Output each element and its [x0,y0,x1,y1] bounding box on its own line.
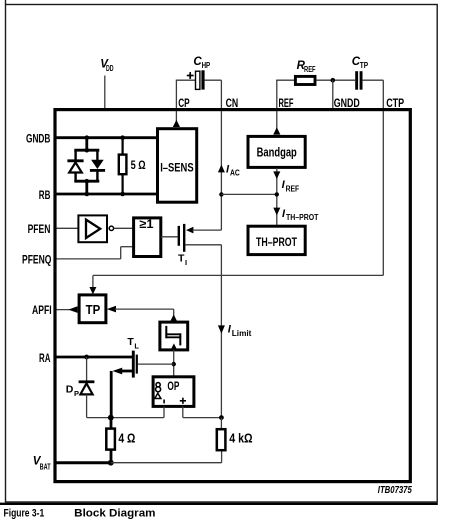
block Bandgap [248,136,305,167]
junction ILimit plus node [219,415,224,420]
svg-text:4 kΩ: 4 kΩ [229,431,252,446]
capacitor CTP [352,56,369,90]
block TP [79,295,106,323]
wire OP plus input [183,406,222,417]
pin label REF [279,96,294,110]
wire TP input from Schmitt [107,306,174,317]
pin label CTP [386,96,404,110]
svg-text:TP: TP [86,303,101,317]
IC boundary box [55,110,410,482]
svg-text:TH–PROT: TH–PROT [286,213,318,222]
junction GNDB diode branch [85,135,90,140]
svg-text:REF: REF [279,96,294,110]
label ITB07375 [378,485,412,496]
svg-text:RA: RA [39,351,50,365]
svg-text:P: P [74,389,79,398]
arrow IREF [273,171,299,193]
wire RB [57,193,157,196]
arrow IAC [218,163,240,177]
pin label APFI [32,303,52,317]
wire GNDB [57,136,157,139]
wire CTP internal to TP [89,111,383,294]
diode DP [66,357,95,418]
pin label GNDD [334,96,360,110]
wire Bandgap to TH-PROT [276,168,278,226]
arrow Schmitt input [170,343,177,350]
block I-SENS [158,129,197,203]
junction RB 5ohm branch [120,192,125,197]
svg-text:Figure 3-1: Figure 3-1 [4,508,45,520]
wire REF external [276,80,294,108]
svg-text:Limit: Limit [232,329,252,338]
svg-text:AC: AC [230,169,240,178]
svg-text:PFENQ: PFENQ [22,252,52,266]
arrow ILimit [218,323,252,337]
junction VBAT node [108,460,114,466]
arrow GNDB into I-SENS [157,134,164,141]
svg-text:TP: TP [360,61,369,70]
svg-text:≥1: ≥1 [139,217,153,231]
pin label GNDB [26,132,50,146]
wire VBAT to 4k ohm [111,451,222,463]
svg-text:BAT: BAT [40,462,51,471]
wire OP minus output [87,406,164,417]
junction GNDB 5ohm branch [120,135,125,140]
transistor TI [178,224,221,267]
Schmitt trigger block [160,322,188,350]
arrow RB into I-SENS [157,190,164,197]
pin label RB [39,188,51,202]
junction TL source node [108,415,114,421]
op-amp OP block [153,377,194,407]
pin label CN [226,96,239,110]
svg-text:APFI: APFI [32,303,52,317]
wire OR gate to TI gate [161,236,179,238]
ESD clamp diode pair [67,138,105,194]
block TH-PROT [248,226,305,254]
wire VBAT [57,461,111,464]
resistor 4k ohm [217,418,253,451]
wire APFI with arrow [57,306,78,313]
wire RREF to GNDD junction [316,79,355,81]
svg-text:REF: REF [304,65,316,74]
arrow Schmitt output [170,314,177,321]
pin label PFENQ [22,252,52,266]
resistor 5 ohm [119,138,146,194]
wire CN internal [220,111,222,230]
svg-text:I–SENS: I–SENS [160,160,193,174]
arrow ITH-PROT [273,208,318,223]
svg-text:4 Ω: 4 Ω [118,431,135,446]
svg-text:T: T [127,336,134,348]
svg-text:GNDD: GNDD [334,96,360,110]
OR gate >=1 [134,217,161,257]
wire PFEN [57,227,79,229]
svg-text:L: L [134,341,139,350]
wire CP internal with arrow into I-SENS [173,111,180,127]
pin label CP [178,96,190,110]
wire REF internal with arrow into Bandgap [273,111,280,135]
transistor TL [111,336,139,417]
svg-text:5 Ω: 5 Ω [131,158,146,172]
buffer PFEN input [78,215,113,242]
svg-text:HP: HP [202,61,211,70]
wire CN external [205,80,222,108]
wire CP external [176,80,196,108]
svg-text:REF: REF [286,184,300,193]
svg-text:OP: OP [167,379,179,393]
resistor 4 ohm [106,418,135,463]
wire RA [57,356,134,359]
wire VDD [104,76,106,109]
pin label PFEN [28,222,51,236]
junction GNDD [331,78,336,108]
svg-text:CTP: CTP [386,96,404,110]
svg-text:GNDB: GNDB [26,132,50,146]
wire ILimit vertical [220,245,222,418]
svg-text:CP: CP [178,96,190,110]
capacitor CHP [187,56,211,90]
svg-text:ITB07375: ITB07375 [378,485,412,496]
resistor RREF [295,60,315,85]
svg-text:I: I [185,258,187,267]
junction TL drain node [138,362,176,366]
pin label RA [39,351,50,365]
junction RB diode branch [85,192,90,197]
svg-text:CN: CN [226,96,239,110]
junction CN to IREF branch [219,192,277,196]
wire Schmitt to OP junction [173,350,175,377]
pin label VBAT [33,456,51,472]
wire buffer to OR gate [114,227,134,229]
junction IREF branch [275,192,279,196]
wire CTP external [363,80,384,108]
svg-text:D: D [66,384,74,396]
svg-text:RB: RB [39,188,51,202]
caption Figure 3-1 Block Diagram [4,508,156,520]
svg-text:PFEN: PFEN [28,222,51,236]
svg-text:Bandgap: Bandgap [257,144,297,159]
svg-text:DD: DD [106,64,114,73]
junction RA diode branch [84,355,89,360]
svg-text:TH–PROT: TH–PROT [256,235,297,249]
wire PFENQ [57,247,134,259]
net VDD [100,59,114,73]
svg-text:Block Diagram: Block Diagram [74,508,156,520]
svg-text:T: T [178,253,185,265]
